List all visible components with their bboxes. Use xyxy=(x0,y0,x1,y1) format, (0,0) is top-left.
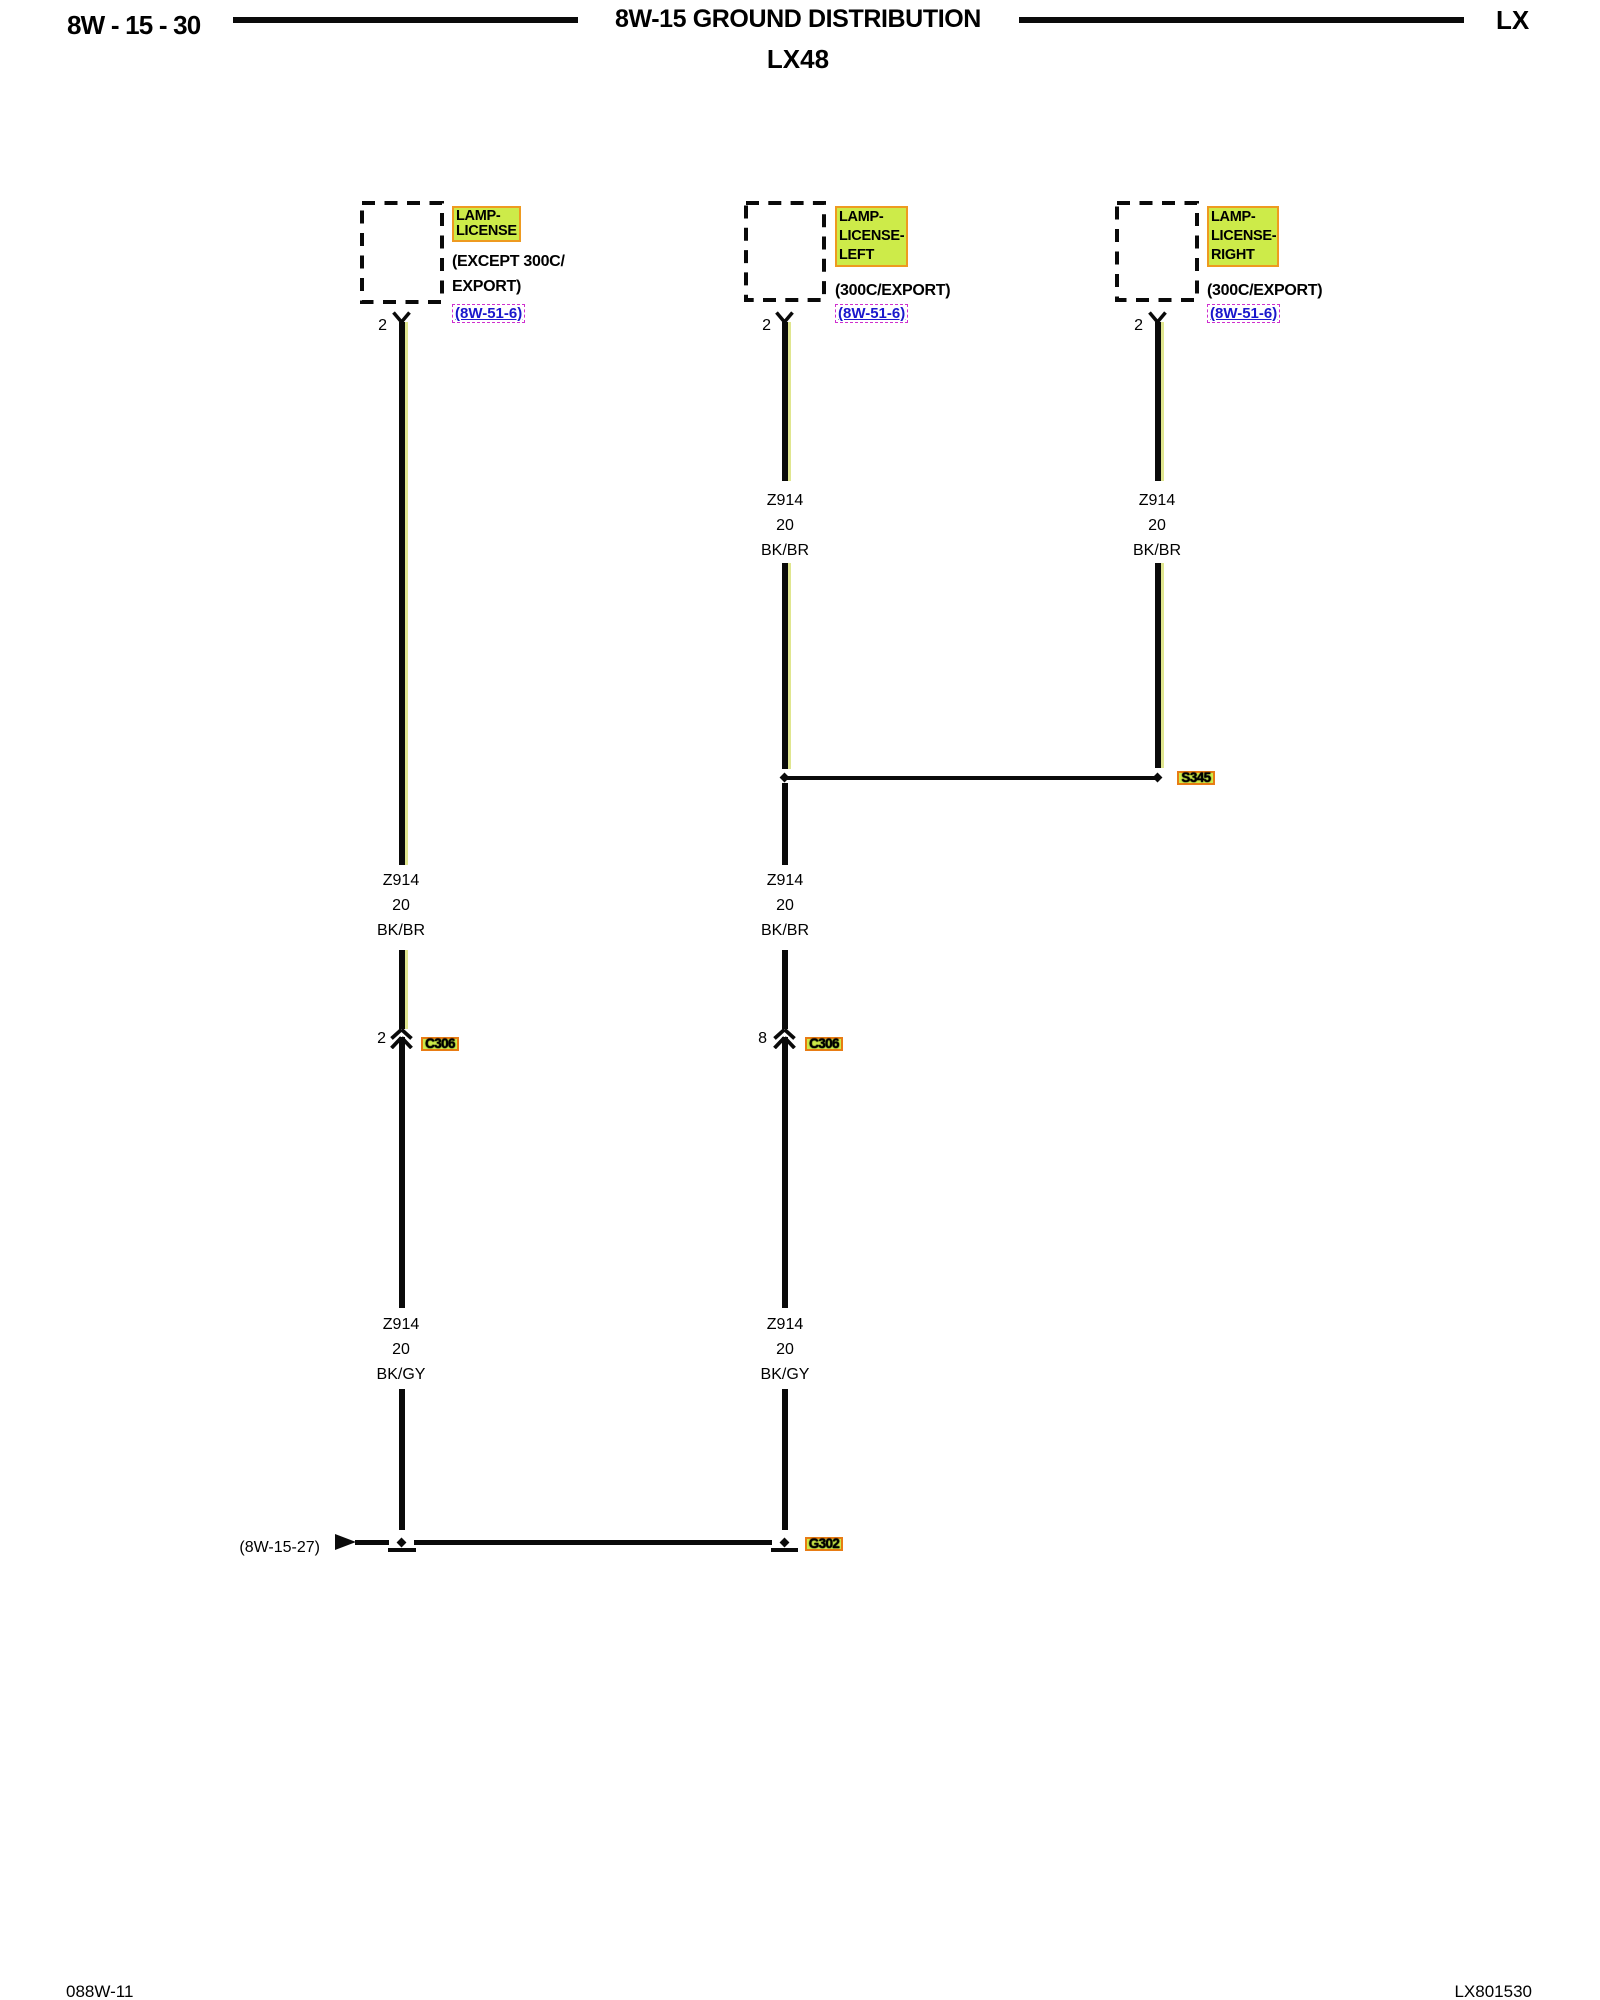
wire label Z914 20 BK/BR left xyxy=(377,868,425,943)
ground bar left xyxy=(388,1548,416,1553)
reference link (8W-51-6) left xyxy=(452,304,525,323)
header rule left xyxy=(233,17,578,23)
footer drawing code LX801530 xyxy=(1440,1983,1532,2000)
wire Z914 left lower segment xyxy=(399,1389,405,1530)
wire Z914 middle above splice (highlighted) xyxy=(782,563,791,769)
wire Z914 left above C306 (highlighted) xyxy=(399,950,408,1029)
splice label S345 xyxy=(1177,771,1215,785)
ground junction diamond middle xyxy=(780,1538,790,1548)
label LAMP-LICENSE highlight xyxy=(452,206,521,242)
wire Z914 middle above C306 xyxy=(782,950,788,1029)
wire label Z914 20 BK/GY left xyxy=(377,1312,426,1387)
connector fork at right lamp xyxy=(1147,311,1168,323)
inline connector C306 middle symbol xyxy=(771,1028,798,1049)
pin 8 at C306 middle xyxy=(746,1031,767,1047)
connector lamp-license-left: dashed box xyxy=(744,201,826,302)
junction diamond at middle splice xyxy=(780,773,790,783)
connector lamp-license-right: dashed box xyxy=(1115,201,1199,302)
pin 2 of left lamp connector xyxy=(366,318,387,334)
header subtitle LX48 xyxy=(767,46,829,72)
label LAMP-LICENSE-LEFT highlight xyxy=(835,206,908,267)
pin 2 of right lamp connector xyxy=(1122,318,1143,334)
wire Z914 middle below splice xyxy=(782,783,788,865)
header rule right xyxy=(1019,17,1464,23)
footer sheet number 088W-11 xyxy=(66,1983,133,2000)
connector fork at left lamp xyxy=(391,311,412,323)
wire label Z914 20 BK/BR right xyxy=(1133,488,1181,563)
wire Z914 right upper segment (highlighted) xyxy=(1155,322,1164,481)
wire Z914 right above splice (highlighted) xyxy=(1155,563,1164,768)
inline connector C306 left symbol xyxy=(388,1028,415,1049)
junction diamond at right splice xyxy=(1153,773,1163,783)
label C306 left xyxy=(421,1037,459,1051)
ground reference arrow (8W-15-27) xyxy=(335,1534,356,1550)
wire Z914 middle below C306 xyxy=(782,1037,788,1308)
label C306 middle xyxy=(805,1037,843,1051)
wire Z914 left upper segment (highlighted) xyxy=(399,322,408,865)
connector lamp-license (except 300C/export): dashed box xyxy=(360,201,444,304)
pin 2 of middle lamp connector xyxy=(750,318,771,334)
note (300C/EXPORT) middle xyxy=(835,278,950,303)
wire label Z914 20 BK/BR middle lower xyxy=(761,868,809,943)
connector fork at middle lamp xyxy=(774,311,795,323)
wire label Z914 20 BK/GY middle xyxy=(761,1312,810,1387)
header code LX xyxy=(1496,7,1529,33)
wire Z914 middle upper segment (highlighted) xyxy=(782,322,791,481)
reference link (8W-51-6) middle xyxy=(835,304,908,323)
ground junction diamond left xyxy=(397,1538,407,1548)
wire Z914 middle lower segment xyxy=(782,1389,788,1530)
ground reference text (8W-15-27) xyxy=(230,1539,320,1556)
ground bar middle xyxy=(771,1548,798,1553)
ground bus wire between junctions xyxy=(414,1540,772,1545)
ground label G302 xyxy=(805,1537,843,1551)
splice S345 horizontal wire xyxy=(784,776,1158,781)
reference link (8W-51-6) right xyxy=(1207,304,1280,323)
header page number 8W - 15 - 30 xyxy=(67,12,200,38)
label LAMP-LICENSE-RIGHT highlight xyxy=(1207,206,1279,267)
wire Z914 left below C306 xyxy=(399,1037,405,1308)
wire label Z914 20 BK/BR middle upper xyxy=(761,488,809,563)
ground bus wire left of G302 left junction xyxy=(355,1540,389,1545)
header title 8W-15 GROUND DISTRIBUTION xyxy=(615,6,981,32)
note (300C/EXPORT) right xyxy=(1207,278,1322,303)
pin 2 at C306 left xyxy=(365,1031,386,1047)
note (EXCEPT 300C/EXPORT) xyxy=(452,249,565,299)
